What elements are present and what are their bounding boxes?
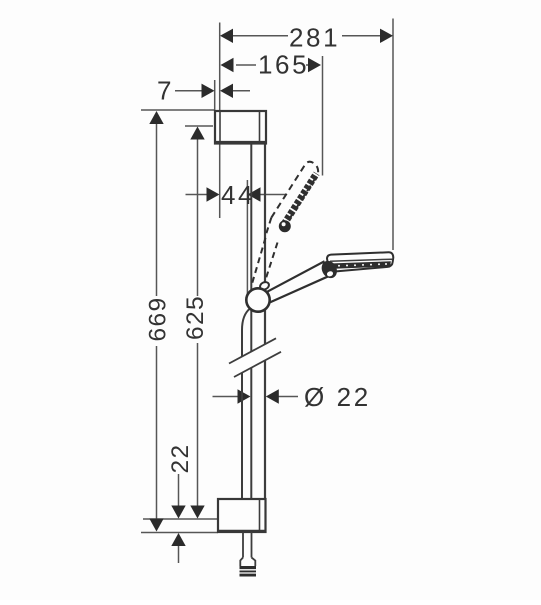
svg-text:7: 7	[157, 76, 174, 106]
svg-text:22: 22	[167, 443, 194, 473]
svg-text:669: 669	[145, 296, 172, 341]
svg-text:Ø 22: Ø 22	[304, 382, 371, 412]
svg-text:44: 44	[221, 180, 255, 210]
svg-text:165: 165	[258, 50, 309, 80]
svg-text:625: 625	[182, 295, 209, 340]
svg-text:281: 281	[289, 23, 340, 53]
